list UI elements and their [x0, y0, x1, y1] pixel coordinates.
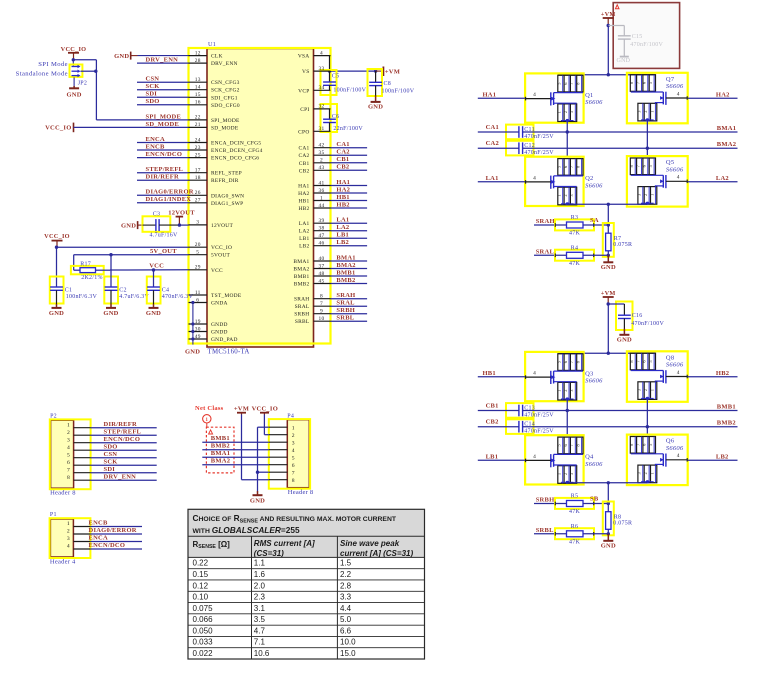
U1 pin 5 5VOUT	[189, 250, 231, 259]
ground GND below C16	[623, 329, 625, 335]
svg-text:HA2: HA2	[336, 186, 350, 193]
svg-text:SRAH: SRAH	[536, 218, 555, 225]
svg-text:S6606: S6606	[666, 167, 684, 174]
no-fit region box (C15)	[613, 3, 679, 69]
svg-text:19: 19	[195, 319, 201, 325]
svg-text:GND: GND	[121, 222, 136, 229]
capacitor C2 4.7uF/6.3V	[104, 255, 149, 304]
svg-text:C3: C3	[153, 212, 161, 218]
ground flag GND at U1 pin 12 CLK	[114, 52, 188, 60]
wire and net label SRAH	[534, 218, 567, 225]
wire and net label HA2 from U1	[331, 186, 368, 193]
svg-text:2: 2	[292, 433, 295, 439]
wire and net label LB1 from U1	[331, 232, 368, 239]
svg-text:2: 2	[563, 111, 568, 113]
P2 pin 6	[67, 460, 91, 466]
P1 pin 3	[67, 536, 91, 542]
svg-text:39: 39	[319, 218, 325, 224]
svg-text:2.3: 2.3	[254, 593, 266, 602]
node junction bottom rail	[607, 203, 610, 206]
wire and net label SRAL from U1	[331, 300, 368, 307]
U1 pin 43 CB2	[299, 165, 331, 174]
svg-text:BMB1: BMB1	[336, 269, 355, 276]
svg-text:22: 22	[195, 115, 201, 121]
svg-text:Standalone Mode: Standalone Mode	[16, 71, 68, 78]
U1 pin 34 VCP	[298, 85, 330, 94]
svg-text:ENCA_DCIN_CFG5: ENCA_DCIN_CFG5	[211, 141, 261, 147]
svg-text:45: 45	[319, 278, 325, 284]
connector P1 Header 4	[50, 512, 91, 565]
svg-text:43: 43	[319, 165, 325, 171]
P4 pin 4	[269, 448, 295, 454]
svg-text:Q5: Q5	[666, 159, 674, 166]
svg-text:47K: 47K	[569, 509, 581, 515]
P4 pin 5	[269, 455, 295, 461]
svg-text:SD_MODE: SD_MODE	[211, 125, 239, 131]
U1 pin 27 DIAG1_SWP	[189, 198, 244, 207]
wire Q3 source to BMB1	[566, 399, 568, 435]
wire and net label HA2 (right gate out)	[688, 91, 738, 98]
svg-text:470nF/100V: 470nF/100V	[631, 321, 664, 327]
svg-text:S6606: S6606	[666, 83, 684, 90]
wire and net label CB2 into C14	[478, 419, 519, 427]
svg-text:2: 2	[563, 473, 568, 475]
svg-text:VS: VS	[302, 69, 309, 75]
svg-text:100nF/6.3V: 100nF/6.3V	[66, 294, 98, 300]
svg-text:DRV_ENN: DRV_ENN	[211, 61, 238, 67]
U1 pin 40 BMA1	[293, 256, 330, 265]
U1 pin 45 BMB2	[294, 278, 331, 287]
svg-text:CSN: CSN	[104, 451, 118, 458]
node junction C4 tap on VCC	[152, 268, 155, 271]
svg-text:470nF/6.3V: 470nF/6.3V	[162, 294, 194, 300]
wire and net label DIR/REFR to U1	[137, 174, 189, 181]
svg-text:SRAL: SRAL	[536, 248, 555, 255]
svg-text:DRV_ENN: DRV_ENN	[146, 57, 179, 64]
node junction VCC_IO / JP2	[72, 58, 75, 61]
svg-text:R6: R6	[571, 524, 579, 530]
svg-text:18: 18	[195, 175, 201, 181]
svg-text:27: 27	[195, 198, 201, 204]
wire and net label BMA1 to P4	[202, 450, 268, 457]
svg-text:DIAG0_SWN: DIAG0_SWN	[211, 193, 244, 199]
svg-text:S6606: S6606	[666, 362, 684, 369]
svg-text:HA1: HA1	[298, 184, 309, 190]
P1 pin 4	[67, 544, 91, 550]
capacitor C11 470nF/25V	[506, 125, 554, 140]
svg-text:Q4: Q4	[585, 454, 594, 461]
node junction +VM rail	[607, 352, 610, 355]
capacitor C5 100nF/100V	[321, 70, 367, 95]
svg-text:4: 4	[533, 454, 536, 460]
U1 pin 37 BMA2	[293, 263, 330, 272]
svg-text:0.12: 0.12	[193, 581, 209, 590]
U1 pin 44 HB2	[298, 203, 330, 212]
svg-text:7: 7	[320, 301, 323, 307]
U1 pin 11 TST_MODE	[189, 290, 242, 299]
svg-text:CLK: CLK	[211, 54, 223, 60]
U1 pin 2 CB1	[299, 158, 331, 167]
svg-text:C6: C6	[332, 114, 340, 120]
capacitor C14 470nF/25V	[506, 419, 554, 434]
wire and net label DIR/REFR from P2 pin 1	[91, 421, 157, 428]
U1 pin 28 DRV_ENN	[189, 58, 238, 67]
svg-text:49: 49	[195, 334, 201, 340]
svg-text:VCC_IO: VCC_IO	[44, 233, 70, 240]
svg-text:22nF/100V: 22nF/100V	[333, 126, 363, 132]
svg-text:HA2: HA2	[716, 91, 730, 98]
svg-text:SDO: SDO	[146, 98, 160, 105]
svg-text:8: 8	[67, 475, 70, 481]
wire GND bus left of U1 pins 6/19/30/49	[191, 301, 194, 345]
svg-text:0.033: 0.033	[193, 638, 214, 647]
resistor R6 47K	[555, 524, 594, 546]
svg-text:3.5: 3.5	[254, 615, 266, 624]
svg-text:LB2: LB2	[299, 244, 309, 250]
svg-text:4: 4	[67, 544, 70, 550]
svg-text:3: 3	[67, 437, 70, 443]
node junction C3/12VOUT	[178, 223, 181, 226]
svg-text:36: 36	[319, 188, 325, 194]
svg-text:STEP/REFL: STEP/REFL	[146, 166, 184, 173]
svg-text:BMA2: BMA2	[293, 267, 309, 273]
svg-text:DIAG0/ERROR: DIAG0/ERROR	[89, 527, 137, 534]
svg-text:CB2: CB2	[299, 168, 310, 174]
resistor R8 0.075R	[603, 502, 632, 536]
svg-text:P1: P1	[50, 512, 57, 518]
capacitor C13 470nF/25V	[506, 403, 554, 418]
transistor Q8 S6606 (high side right)	[627, 351, 688, 402]
svg-text:GND: GND	[66, 92, 81, 99]
wire and net label LA2 from U1	[331, 224, 368, 231]
svg-text:2: 2	[643, 194, 648, 196]
svg-text:2: 2	[643, 110, 648, 112]
jumper JP2	[70, 60, 88, 87]
svg-text:current [A] (CS=31): current [A] (CS=31)	[340, 549, 413, 558]
wire and net label SRBL from U1	[331, 315, 368, 322]
svg-text:+VM: +VM	[601, 11, 616, 18]
svg-text:BMA2: BMA2	[336, 262, 355, 269]
svg-text:2.8: 2.8	[340, 581, 352, 590]
svg-text:Q8: Q8	[666, 354, 674, 361]
power port 12VOUT	[168, 210, 195, 225]
svg-text:HB1: HB1	[336, 194, 349, 201]
svg-text:25: 25	[195, 152, 201, 158]
svg-text:2: 2	[67, 529, 70, 535]
P2 pin 4	[67, 445, 91, 451]
svg-text:16: 16	[195, 100, 201, 106]
svg-text:LA2: LA2	[336, 224, 349, 231]
svg-text:CA2: CA2	[298, 153, 309, 159]
capacitor C1 100nF/6.3V	[50, 277, 98, 304]
svg-text:BMA1: BMA1	[336, 254, 355, 261]
U1 pin 41 HA1	[298, 180, 330, 189]
svg-text:23: 23	[195, 145, 201, 151]
svg-text:R4: R4	[571, 245, 579, 251]
resistor R7 0.075R	[603, 223, 632, 257]
svg-text:SPI_MODE: SPI_MODE	[146, 113, 182, 120]
svg-text:1: 1	[649, 389, 654, 391]
power port +VM (P4)	[234, 405, 249, 414]
svg-text:BMB2: BMB2	[336, 277, 355, 284]
svg-text:SDO: SDO	[104, 443, 118, 450]
svg-text:0.075: 0.075	[193, 604, 214, 613]
svg-text:SA: SA	[590, 217, 599, 224]
svg-text:47: 47	[319, 233, 325, 239]
svg-text:R7: R7	[614, 236, 622, 242]
svg-text:STEP/REFL: STEP/REFL	[104, 428, 142, 435]
wire and net label CSN from P2 pin 5	[91, 451, 157, 458]
svg-text:HB2: HB2	[716, 370, 729, 377]
wire and net label SCK to U1	[137, 83, 189, 90]
svg-text:5: 5	[196, 250, 199, 256]
capacitor C6 22nF/100V	[321, 104, 364, 132]
ground GND below JP2	[66, 77, 81, 98]
node junction P4 GND	[256, 471, 259, 474]
connector P2 Header 8	[50, 413, 91, 496]
P2 pin 8	[67, 475, 91, 481]
svg-text:Header 8: Header 8	[288, 489, 314, 496]
svg-text:100nF/100V: 100nF/100V	[382, 88, 415, 94]
wire and net label LA1 (left gate in)	[478, 175, 525, 182]
svg-text:VCC_IO: VCC_IO	[45, 125, 71, 132]
svg-text:GND: GND	[368, 103, 383, 110]
ground GND below C2	[103, 290, 118, 317]
wire VS to +VM	[330, 70, 376, 72]
svg-text:CPO: CPO	[298, 129, 309, 135]
svg-text:HB1: HB1	[483, 370, 496, 377]
svg-text:2.0: 2.0	[254, 581, 266, 590]
svg-text:4.4: 4.4	[340, 604, 352, 613]
wire and net label STEP/REFL to U1	[137, 166, 189, 173]
svg-text:12VOUT: 12VOUT	[211, 223, 233, 229]
svg-text:SCK_CFG2: SCK_CFG2	[211, 88, 240, 94]
wire and net label BMA1 from U1	[331, 254, 368, 261]
svg-text:24: 24	[195, 137, 201, 143]
svg-text:SDI_CFG1: SDI_CFG1	[211, 95, 238, 101]
svg-text:C1: C1	[65, 288, 73, 294]
svg-text:BMB2: BMB2	[717, 420, 736, 427]
svg-text:GND: GND	[146, 310, 161, 317]
svg-text:GNDA: GNDA	[211, 301, 228, 307]
svg-text:DIR/REFR: DIR/REFR	[146, 174, 179, 181]
svg-text:8: 8	[320, 294, 323, 300]
svg-text:C16: C16	[632, 313, 643, 319]
wire and net label SRAH from U1	[331, 292, 368, 299]
svg-text:P2: P2	[50, 413, 57, 419]
svg-text:GND: GND	[617, 336, 632, 343]
wire VCC_IO to P4 pin 2	[264, 415, 268, 435]
wire +VM top rail	[558, 74, 655, 76]
svg-text:LA1: LA1	[299, 221, 310, 227]
svg-text:26: 26	[195, 190, 201, 196]
svg-text:4: 4	[677, 370, 680, 376]
svg-text:0.22: 0.22	[193, 559, 209, 568]
svg-text:C15: C15	[632, 34, 643, 40]
svg-text:REFL_STEP: REFL_STEP	[211, 171, 242, 177]
svg-text:9: 9	[320, 309, 323, 315]
svg-text:SD_MODE: SD_MODE	[146, 121, 180, 128]
svg-text:LB2: LB2	[716, 453, 729, 460]
U1 pin 33 VS	[302, 66, 330, 75]
wire +VM top rail	[558, 352, 655, 354]
wire and net label SPI_MODE to U1 pin 22	[137, 113, 189, 120]
svg-text:BMA1: BMA1	[293, 259, 309, 265]
power port +VM (near C8)	[376, 67, 400, 77]
transistor Q3 S6606 (high side left)	[525, 352, 603, 401]
wire and net label BMB1 from U1	[331, 269, 368, 276]
svg-text:BMA1: BMA1	[211, 450, 230, 457]
svg-text:DIAG0/ERROR: DIAG0/ERROR	[146, 189, 194, 196]
svg-text:47K: 47K	[569, 261, 581, 267]
svg-text:HA2: HA2	[298, 191, 309, 197]
svg-text:33: 33	[319, 66, 325, 72]
svg-text:4: 4	[533, 371, 536, 377]
node junction sense bottom	[607, 532, 610, 535]
wire P4 pin 1 to GND	[258, 427, 269, 472]
svg-text:SDI: SDI	[146, 91, 158, 98]
U1 pin 29 VCC	[189, 265, 224, 274]
wire and net label SDO to U1	[137, 98, 189, 105]
capacitor C12 470nF/25V	[506, 141, 554, 156]
svg-text:LB1: LB1	[336, 232, 349, 239]
ground GND below sense resistor	[607, 255, 609, 262]
wire and net label CB1 from U1	[331, 156, 368, 163]
U1 pin 13 CSN_CFG3	[189, 77, 240, 86]
U1 pin 38 LA2	[299, 226, 331, 235]
svg-text:5VOUT: 5VOUT	[211, 253, 230, 259]
svg-text:17: 17	[195, 168, 201, 174]
P4 pin 8	[269, 478, 295, 484]
U1 pin 16 SDO_CFG0	[189, 100, 240, 109]
P4 pin 6	[269, 463, 295, 469]
wire and net label LB1 (left gate in)	[478, 453, 525, 460]
svg-text:3.3: 3.3	[340, 593, 352, 602]
svg-text:4.7uF/16V: 4.7uF/16V	[150, 232, 179, 238]
capacitor C16 470nF/100V	[608, 302, 664, 331]
node junction C2 tap on 5V_OUT	[109, 253, 112, 256]
wire and net label ENCA to U1	[137, 136, 189, 143]
svg-text:LB2: LB2	[336, 239, 349, 246]
svg-text:3.1: 3.1	[254, 604, 266, 613]
svg-text:4: 4	[292, 448, 295, 454]
svg-text:1: 1	[557, 194, 562, 196]
svg-text:CPI: CPI	[300, 107, 309, 113]
svg-text:VSA: VSA	[298, 54, 310, 60]
wire and net label DIAG0/ERROR from P1 pin 2	[89, 527, 143, 534]
wire U1 pin 4 VSA to pin 33 VS	[329, 56, 331, 72]
svg-text:47K: 47K	[569, 231, 581, 237]
svg-text:4: 4	[677, 453, 680, 459]
U1 pin 8 SRAH	[294, 294, 331, 303]
svg-text:1: 1	[292, 425, 295, 431]
wire and net label ENCB to U1	[137, 143, 189, 150]
svg-text:SRAH: SRAH	[294, 297, 310, 303]
node junction BMB1 left column	[566, 409, 569, 412]
wire R4 to GND node	[583, 254, 608, 256]
resistor R4 47K	[555, 245, 594, 267]
U1 pin 12 CLK	[189, 50, 223, 59]
wire BMA1 rail	[523, 131, 738, 133]
svg-text:SB: SB	[590, 495, 599, 502]
wire Q7 source to BMA2	[646, 120, 648, 157]
node junction VCC_IO	[55, 246, 58, 249]
svg-text:0.066: 0.066	[193, 615, 214, 624]
svg-text:470nF/100V: 470nF/100V	[630, 42, 663, 48]
svg-text:ENCN/DCO: ENCN/DCO	[89, 542, 126, 549]
svg-text:ENCA: ENCA	[89, 535, 108, 542]
svg-text:DRV_ENN: DRV_ENN	[104, 473, 137, 480]
svg-text:7.1: 7.1	[254, 638, 266, 647]
wire and net label LB2 from U1	[331, 239, 368, 246]
wire and net label ENCN/DCO from P1 pin 4	[89, 542, 143, 549]
U1 pin 14 SCK_CFG2	[189, 85, 240, 94]
svg-text:GND: GND	[114, 53, 129, 60]
ground GND below P4	[257, 491, 259, 495]
svg-text:SRAH: SRAH	[336, 292, 355, 299]
node junction sense bottom	[607, 254, 610, 257]
wire 12VOUT to U1 pin 3	[179, 224, 188, 226]
svg-text:28: 28	[195, 58, 201, 64]
svg-text:ENCB: ENCB	[89, 520, 108, 527]
net class directive A	[195, 405, 234, 473]
ground GND below C1	[49, 290, 64, 317]
svg-text:S6606: S6606	[585, 99, 603, 106]
svg-text:BMB1: BMB1	[717, 404, 736, 411]
node junction +VM A	[607, 24, 610, 27]
svg-text:LA2: LA2	[299, 229, 310, 235]
svg-text:SCK: SCK	[104, 458, 118, 465]
svg-text:DIR/REFR: DIR/REFR	[104, 421, 137, 428]
svg-text:SRBH: SRBH	[294, 312, 309, 318]
svg-text:CB1: CB1	[336, 156, 349, 163]
svg-text:0.075R: 0.075R	[613, 242, 632, 248]
svg-text:BMA2: BMA2	[717, 141, 736, 148]
svg-text:5V_OUT: 5V_OUT	[150, 248, 177, 255]
U1 pin 18 REFR_DIR	[189, 175, 239, 184]
power port VCC_IO (top left)	[61, 46, 87, 60]
svg-text:Net Class: Net Class	[195, 405, 224, 412]
svg-text:2K2/1%: 2K2/1%	[81, 275, 103, 281]
svg-text:HA1: HA1	[336, 179, 350, 186]
svg-text:4: 4	[67, 445, 70, 451]
U1 pin 49 GND_PAD	[189, 334, 238, 343]
svg-text:100nF/100V: 100nF/100V	[333, 88, 366, 94]
wire VCC to U1 pin 29	[110, 269, 189, 271]
svg-text:4: 4	[533, 175, 536, 181]
svg-text:(CS=31): (CS=31)	[254, 549, 284, 558]
svg-text:0.022: 0.022	[193, 649, 214, 658]
wire and net label SDI from P2 pin 7	[91, 466, 157, 473]
svg-text:10: 10	[319, 316, 325, 322]
node junction C8 tap	[374, 69, 377, 72]
U1 pin 21 SD_MODE	[189, 122, 239, 131]
wire and net label CA2 from U1	[331, 149, 368, 156]
svg-text:Q6: Q6	[666, 438, 675, 445]
svg-text:470nF/25V: 470nF/25V	[524, 134, 554, 140]
wire and net label HA1 (left gate in)	[478, 91, 525, 98]
svg-text:12VOUT: 12VOUT	[168, 210, 195, 217]
svg-text:VCC_IO: VCC_IO	[252, 405, 278, 412]
svg-text:SPI_MODE: SPI_MODE	[211, 118, 240, 124]
svg-text:2: 2	[643, 472, 648, 474]
svg-text:GND: GND	[617, 58, 631, 64]
svg-text:1: 1	[649, 472, 654, 474]
wire and net label DIAG1/INDEX to U1	[137, 196, 191, 203]
svg-text:29: 29	[195, 265, 201, 271]
table: choice of Rsense	[188, 509, 425, 659]
U1 pin 19 GNDD	[189, 319, 228, 328]
